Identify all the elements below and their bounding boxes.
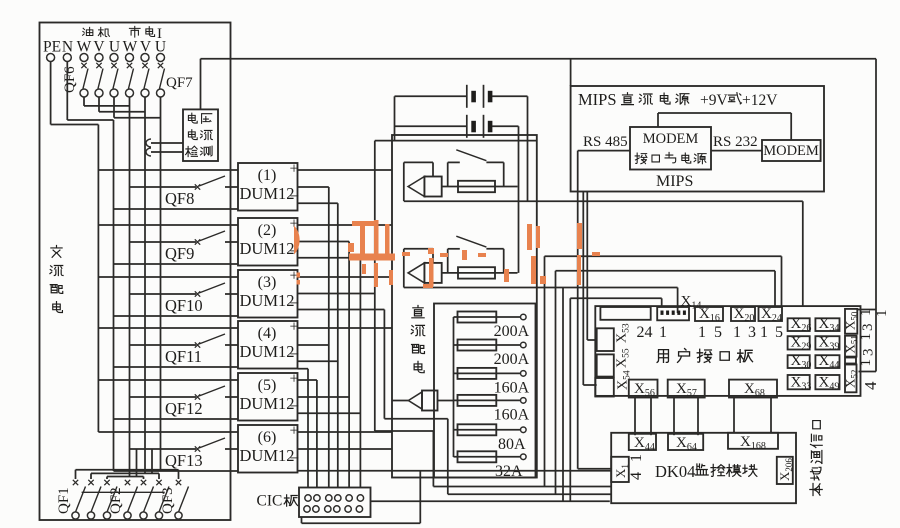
svg-text:DUM12: DUM12 bbox=[239, 239, 294, 258]
svg-text:1: 1 bbox=[733, 324, 741, 341]
svg-text:+: + bbox=[290, 161, 299, 178]
label 市电I (mains I) bbox=[129, 26, 140, 37]
connector X56 bbox=[629, 380, 658, 398]
svg-text:4: 4 bbox=[628, 472, 645, 480]
svg-text:(6): (6) bbox=[258, 429, 277, 446]
svg-text:CIC: CIC bbox=[257, 493, 283, 510]
bus W bbox=[129, 97, 131, 477]
svg-text:24: 24 bbox=[637, 324, 653, 341]
breaker QF12 row bbox=[98, 379, 238, 381]
svg-text:QF10: QF10 bbox=[165, 296, 203, 315]
DC system box bbox=[392, 135, 537, 478]
svg-text:QF3: QF3 bbox=[160, 487, 176, 514]
wire W4 to X14 bbox=[562, 288, 564, 502]
fuse feed bus bbox=[453, 317, 455, 457]
connector X20 bbox=[731, 307, 755, 321]
svg-text:+12V: +12V bbox=[742, 92, 778, 109]
svg-text:1: 1 bbox=[659, 324, 667, 341]
svg-text:3: 3 bbox=[861, 349, 877, 357]
user interface board 用户接口板 bbox=[595, 306, 860, 396]
svg-text:160A: 160A bbox=[494, 379, 530, 396]
current transformer hooks bbox=[146, 139, 151, 147]
DC output arrow bbox=[392, 400, 408, 402]
bracket wires for QF1-QF3 bbox=[76, 469, 179, 471]
CIC to DK04 wire bbox=[301, 517, 303, 523]
svg-text:DUM12: DUM12 bbox=[239, 184, 294, 203]
label 油机 (generator) bbox=[83, 27, 93, 35]
svg-text:QF6: QF6 bbox=[62, 66, 78, 93]
module output wires bbox=[298, 169, 393, 171]
svg-text:3: 3 bbox=[860, 324, 876, 332]
svg-text:5: 5 bbox=[775, 324, 783, 341]
svg-text:PE: PE bbox=[43, 39, 61, 56]
connector X64 bbox=[668, 434, 703, 450]
rectifier module (4) DUM12 bbox=[238, 321, 298, 369]
connector X1 bbox=[611, 457, 629, 482]
svg-text:QF13: QF13 bbox=[165, 451, 203, 470]
MODEM box bbox=[762, 140, 821, 161]
breaker QF13 row bbox=[98, 431, 238, 433]
svg-text:QF8: QF8 bbox=[165, 189, 194, 208]
wire W2 bbox=[544, 256, 546, 486]
battery right drop 2 bbox=[518, 126, 520, 273]
svg-text:RS 232: RS 232 bbox=[713, 134, 758, 150]
wire W3 bbox=[555, 271, 557, 495]
fuse 160A bbox=[454, 372, 524, 374]
label 本地通信口 (local comm port) bbox=[810, 483, 822, 495]
svg-text:(5): (5) bbox=[258, 377, 277, 394]
svg-text:DUM12: DUM12 bbox=[239, 446, 294, 465]
right connector grid bbox=[788, 318, 810, 331]
N wire bbox=[66, 62, 68, 121]
connector X14 bbox=[657, 307, 689, 320]
svg-text:QF7: QF7 bbox=[166, 75, 193, 91]
svg-text:1: 1 bbox=[698, 324, 706, 341]
CIC board connector bbox=[299, 488, 371, 518]
phase merge wires W V U bbox=[83, 97, 85, 106]
MODEM interface box bbox=[630, 127, 711, 170]
svg-text:4: 4 bbox=[861, 381, 880, 390]
wire detect box to MIPS supply and far right bbox=[200, 59, 202, 110]
svg-text:(4): (4) bbox=[258, 325, 277, 342]
svg-text:DUM12: DUM12 bbox=[239, 394, 294, 413]
svg-text:+9V: +9V bbox=[700, 92, 728, 109]
charger bus top bbox=[375, 140, 537, 142]
svg-text:MODEM: MODEM bbox=[643, 131, 699, 147]
svg-text:QF9: QF9 bbox=[165, 244, 194, 263]
svg-text:DK04: DK04 bbox=[655, 462, 695, 481]
fuse 32A bbox=[454, 456, 524, 458]
wire W1 charger to board bbox=[802, 201, 804, 306]
svg-text:+: + bbox=[290, 371, 299, 388]
svg-text:200A: 200A bbox=[494, 323, 530, 340]
rectifier module (2) DUM12 bbox=[238, 218, 298, 266]
fuse 80A bbox=[454, 429, 524, 431]
unit fuse bbox=[442, 272, 518, 274]
svg-text:DUM12: DUM12 bbox=[239, 291, 294, 310]
fuse 160A bbox=[454, 399, 524, 401]
unit diode arrow bbox=[408, 177, 424, 197]
battery left drop bbox=[394, 96, 396, 141]
switch pole 1 bbox=[73, 480, 78, 485]
svg-text:(1): (1) bbox=[258, 167, 277, 184]
connector X44 bbox=[629, 434, 656, 450]
connector X16 bbox=[695, 307, 723, 321]
label 直流配电 (DC distribution) bbox=[412, 306, 424, 318]
unit switch bbox=[448, 161, 460, 163]
svg-text:3: 3 bbox=[748, 324, 756, 341]
bus U bbox=[160, 97, 162, 470]
monitor outputs of module 3 bbox=[298, 293, 375, 295]
svg-text:1: 1 bbox=[760, 324, 768, 341]
svg-text:+: + bbox=[290, 423, 299, 440]
switch pole 6 bbox=[156, 480, 161, 485]
connector X168 bbox=[728, 433, 778, 449]
svg-text:QF12: QF12 bbox=[165, 399, 203, 418]
X56 to X44 wires bbox=[634, 398, 636, 436]
battery string 1 bbox=[466, 85, 468, 108]
MIPS internal wires bbox=[658, 112, 791, 114]
svg-text:QF1: QF1 bbox=[56, 487, 72, 514]
drop wires to CIC connector bbox=[307, 369, 309, 488]
outputs of modules 4-6 bbox=[298, 344, 329, 346]
svg-text:MIPS: MIPS bbox=[578, 90, 617, 109]
connector X68 bbox=[729, 380, 777, 398]
breaker QF6 (3-pole, generator side) and QF7 (mains side) bbox=[81, 63, 86, 68]
wire W5 bbox=[569, 298, 571, 501]
switch pole 2 bbox=[88, 480, 93, 485]
label 用户接口板 bbox=[657, 350, 668, 363]
rectifier module (6) DUM12 bbox=[238, 425, 298, 473]
switch pole 7 bbox=[176, 480, 181, 485]
svg-text:1: 1 bbox=[858, 309, 874, 317]
svg-text:QF2: QF2 bbox=[108, 487, 124, 514]
svg-text:1: 1 bbox=[874, 310, 890, 318]
connector X57 bbox=[668, 380, 705, 398]
input terminals bbox=[47, 54, 55, 62]
svg-text:DUM12: DUM12 bbox=[239, 342, 294, 361]
DK04 monitoring module box bbox=[611, 433, 796, 503]
svg-text:+: + bbox=[290, 319, 299, 336]
svg-text:5: 5 bbox=[714, 324, 722, 341]
svg-text:MIPS: MIPS bbox=[656, 173, 693, 190]
rotated connectors X50 X51 X52 bbox=[845, 309, 857, 334]
bus V bbox=[144, 97, 146, 474]
right-edge drop wire bbox=[875, 59, 877, 372]
svg-text:1: 1 bbox=[858, 359, 874, 367]
switch pole 4 bbox=[125, 480, 130, 485]
svg-text:200A: 200A bbox=[494, 351, 530, 368]
fuse 200A bbox=[454, 344, 524, 346]
svg-text:−: − bbox=[290, 449, 300, 468]
svg-text:(3): (3) bbox=[258, 274, 277, 291]
wire to X53 bbox=[586, 192, 588, 341]
X57 to X64 wires bbox=[673, 398, 675, 436]
breaker QF8 row bbox=[98, 169, 238, 171]
strip connector bbox=[600, 307, 650, 320]
unit frame bbox=[404, 248, 433, 250]
RS485 wire to DK04 bbox=[577, 151, 579, 469]
left connectors X53 X55 X54 bbox=[597, 328, 614, 351]
bus PE bbox=[97, 125, 99, 433]
monitor outputs of modules 1-2 bbox=[298, 186, 329, 188]
AC distribution outer box bbox=[40, 23, 231, 521]
svg-text:160A: 160A bbox=[494, 406, 530, 423]
switch pole 3 bbox=[104, 480, 109, 485]
RS485 wire to board bbox=[582, 192, 584, 386]
bus N bbox=[113, 120, 115, 471]
connector X206 bbox=[777, 457, 793, 484]
svg-text:1: 1 bbox=[628, 454, 645, 462]
rectifier module (1) DUM12 bbox=[238, 163, 298, 211]
rectifier module (3) DUM12 bbox=[238, 270, 298, 318]
CIC right output wire bbox=[371, 500, 610, 502]
extra feeders to transfer switches bbox=[136, 449, 138, 477]
watermark bbox=[294, 226, 300, 255]
fuse 200A bbox=[454, 316, 524, 318]
unit 2 output bus bbox=[404, 287, 678, 289]
breaker QF9 row bbox=[98, 224, 238, 226]
unit switch bbox=[448, 248, 460, 250]
X68 to X168 wires bbox=[733, 398, 735, 433]
unit diode arrow bbox=[408, 263, 424, 283]
PE wire bbox=[50, 62, 52, 125]
svg-text:1: 1 bbox=[858, 333, 874, 341]
switch pole 5 bbox=[141, 480, 146, 485]
long drop wire left bbox=[374, 141, 376, 431]
voltage/current detect box 电压电流检测 bbox=[183, 109, 218, 161]
fuse panel box bbox=[434, 304, 536, 478]
battery right drop 1 bbox=[527, 96, 529, 201]
svg-text:80A: 80A bbox=[498, 436, 526, 453]
svg-text:QF11: QF11 bbox=[165, 347, 202, 366]
connector X24 bbox=[759, 307, 783, 321]
unit fuse bbox=[442, 186, 518, 188]
breaker QF11 row bbox=[98, 327, 238, 329]
battery string 2 bbox=[466, 115, 468, 138]
rectifier module (5) DUM12 bbox=[238, 373, 298, 421]
svg-text:(2): (2) bbox=[258, 222, 277, 239]
unit 1 output bus bbox=[404, 200, 803, 202]
svg-text:MODEM: MODEM bbox=[763, 143, 819, 159]
svg-text:RS 485: RS 485 bbox=[583, 134, 628, 150]
MODEM to board wire bbox=[859, 371, 877, 373]
label 交流配电 (AC distribution) bbox=[51, 245, 62, 257]
MIPS DC power box bbox=[571, 86, 824, 192]
breaker QF10 row bbox=[98, 276, 238, 278]
unit frame bbox=[404, 161, 433, 163]
wires to monitoring module bbox=[375, 430, 434, 432]
